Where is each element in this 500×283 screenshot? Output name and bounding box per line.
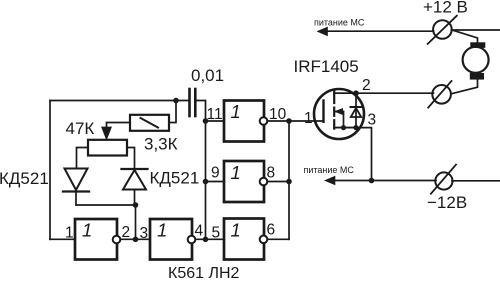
VT1 source internal lead [334, 127, 360, 129]
node: pin 2/3 [133, 237, 139, 243]
svg-text:6: 6 [267, 222, 276, 239]
wire: capacitor output to pin 11 node [197, 101, 206, 122]
node: pin 11 [203, 118, 209, 124]
inverter DD1.5 (pins 5-6) [224, 219, 267, 260]
diode VD1 (left, anode up) [63, 169, 89, 192]
svg-text:питание МС: питание МС [314, 18, 365, 28]
svg-text:47К: 47К [66, 119, 95, 138]
svg-text:2: 2 [362, 77, 371, 94]
wire: -12V terminal to right edge [452, 180, 500, 182]
svg-text:3,3К: 3,3К [144, 135, 178, 154]
inverter DD1.3 (pins 11-10) [224, 101, 267, 142]
node: diode rail [133, 202, 139, 208]
wire: input bus vertical (pins 11,9,5) [205, 121, 207, 239]
svg-text:1: 1 [231, 101, 241, 122]
svg-text:1: 1 [304, 110, 313, 127]
svg-text:0,01: 0,01 [191, 66, 224, 85]
terminal X2 drain [428, 81, 451, 108]
svg-text:питание МС: питание МС [304, 165, 355, 175]
svg-text:1: 1 [82, 220, 92, 241]
inverter DD1.4 (pins 9-8) [224, 161, 267, 202]
svg-text:1: 1 [231, 162, 241, 183]
VT1 body diode triangle [351, 108, 361, 117]
wire: diode rail down to pins 2-3 node [135, 205, 137, 239]
inverter DD1.2 (pins 3-4) [150, 219, 195, 260]
VT1 substrate arm [343, 112, 345, 128]
VT1 substrate arrow [335, 109, 342, 115]
wire: pot right lead to right diode cathode [127, 148, 135, 170]
transistor VT1 IRF1405 [314, 89, 364, 139]
node: body diode/source [353, 125, 358, 130]
potentiometer R1 47K body [88, 140, 127, 156]
motor M1 [463, 42, 489, 79]
wire: drain to +12V terminal [334, 92, 433, 94]
wire: pin 4 output to pin 5 [195, 238, 225, 240]
svg-text:4: 4 [195, 223, 204, 240]
node: drain [353, 90, 359, 96]
inverter DD1.1 (pins 1-2) [75, 219, 120, 260]
svg-text:К561 ЛН2: К561 ЛН2 [168, 265, 240, 282]
wire: pin 10 output to gate [267, 120, 324, 122]
node: pin 4/5 [203, 237, 209, 243]
svg-text:3: 3 [140, 225, 149, 242]
VT1 body circle [314, 89, 364, 139]
wire: pin 6 lead [267, 238, 289, 240]
node: pin 9 [203, 179, 209, 185]
wire: right diode anode to rail [134, 190, 136, 206]
terminal X3 -12V [431, 165, 456, 194]
wire: left diode cathode to rail [75, 192, 77, 206]
VT1 channel segments [333, 92, 335, 104]
svg-text:5: 5 [212, 225, 221, 242]
svg-text:−12В: −12В [427, 193, 467, 212]
svg-text:1: 1 [157, 220, 167, 241]
wire: +12V terminal to right edge [452, 29, 500, 31]
wire: pot left lead to left diode anode [77, 148, 89, 169]
node: pin 10 / gate [286, 118, 292, 124]
diode VD2 (right, anode down) [122, 169, 148, 190]
svg-text:+12 В: +12 В [423, 0, 468, 17]
svg-text:1: 1 [65, 225, 74, 242]
wire: pin 11 lead [206, 120, 225, 122]
terminal X1 +12V [428, 16, 457, 44]
arrow: питание МС bottom [324, 176, 335, 186]
wire: top-left horizontal to capacitor [50, 100, 188, 102]
wire: 3,3K left lead to pot wiper [107, 123, 131, 132]
svg-text:8: 8 [267, 165, 276, 182]
VT1 body diode line [355, 93, 357, 127]
wire: bottom-left to pin 1 [50, 238, 75, 240]
wire: +12V terminal to motor top brush [452, 30, 478, 43]
wire: 3,3K right lead up to capacitor node [169, 101, 176, 123]
wire: pin 2 output to pin 3 [120, 238, 151, 240]
wire: +12V supply left line [327, 30, 434, 32]
VT1 body diode cathode bar [351, 106, 362, 108]
svg-text:11: 11 [207, 106, 223, 123]
svg-text:КД521: КД521 [0, 169, 49, 188]
node: pin 8 bus [286, 179, 292, 185]
resistor R2 3,3K body [130, 115, 169, 131]
svg-text:КД521: КД521 [150, 169, 200, 188]
VT1 drain internal lead [334, 92, 356, 94]
wire: output bus vertical (pins 10,8,6) [288, 121, 290, 239]
svg-text:10: 10 [269, 106, 287, 123]
wire: source lead right and down [334, 128, 371, 181]
capacitor C1 0,01 plates [190, 89, 196, 116]
resistor R2 diagonal mark [141, 118, 159, 128]
node: cap/R2 junction [173, 98, 179, 104]
VT1 gate bar [322, 101, 324, 122]
node: source / -12V row [369, 178, 375, 184]
potentiometer R1 wiper arrow [102, 127, 112, 140]
wire: pin 8 lead [267, 181, 289, 183]
svg-text:IRF1405: IRF1405 [294, 57, 359, 76]
wire: pin 9 lead [206, 181, 225, 183]
svg-text:1: 1 [231, 220, 241, 241]
svg-text:2: 2 [122, 224, 131, 241]
wire: motor bottom brush to drain terminal [452, 79, 478, 93]
wire: -12V horizontal row [334, 180, 436, 182]
svg-text:3: 3 [368, 112, 377, 129]
wire: diode bottom rail [76, 204, 136, 206]
node: substrate/source [341, 125, 346, 130]
wire: left rail vertical [49, 101, 51, 240]
svg-text:9: 9 [211, 165, 220, 182]
arrow: питание МС top [317, 27, 328, 37]
